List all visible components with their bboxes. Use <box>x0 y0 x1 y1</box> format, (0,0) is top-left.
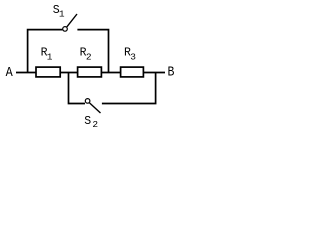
svg-text:1: 1 <box>59 8 65 19</box>
svg-text:1: 1 <box>47 52 53 63</box>
svg-text:2: 2 <box>92 119 98 130</box>
svg-text:A: A <box>6 66 14 81</box>
svg-text:S: S <box>84 115 91 128</box>
svg-text:B: B <box>168 66 175 81</box>
svg-text:3: 3 <box>130 52 136 63</box>
svg-text:2: 2 <box>86 52 92 63</box>
